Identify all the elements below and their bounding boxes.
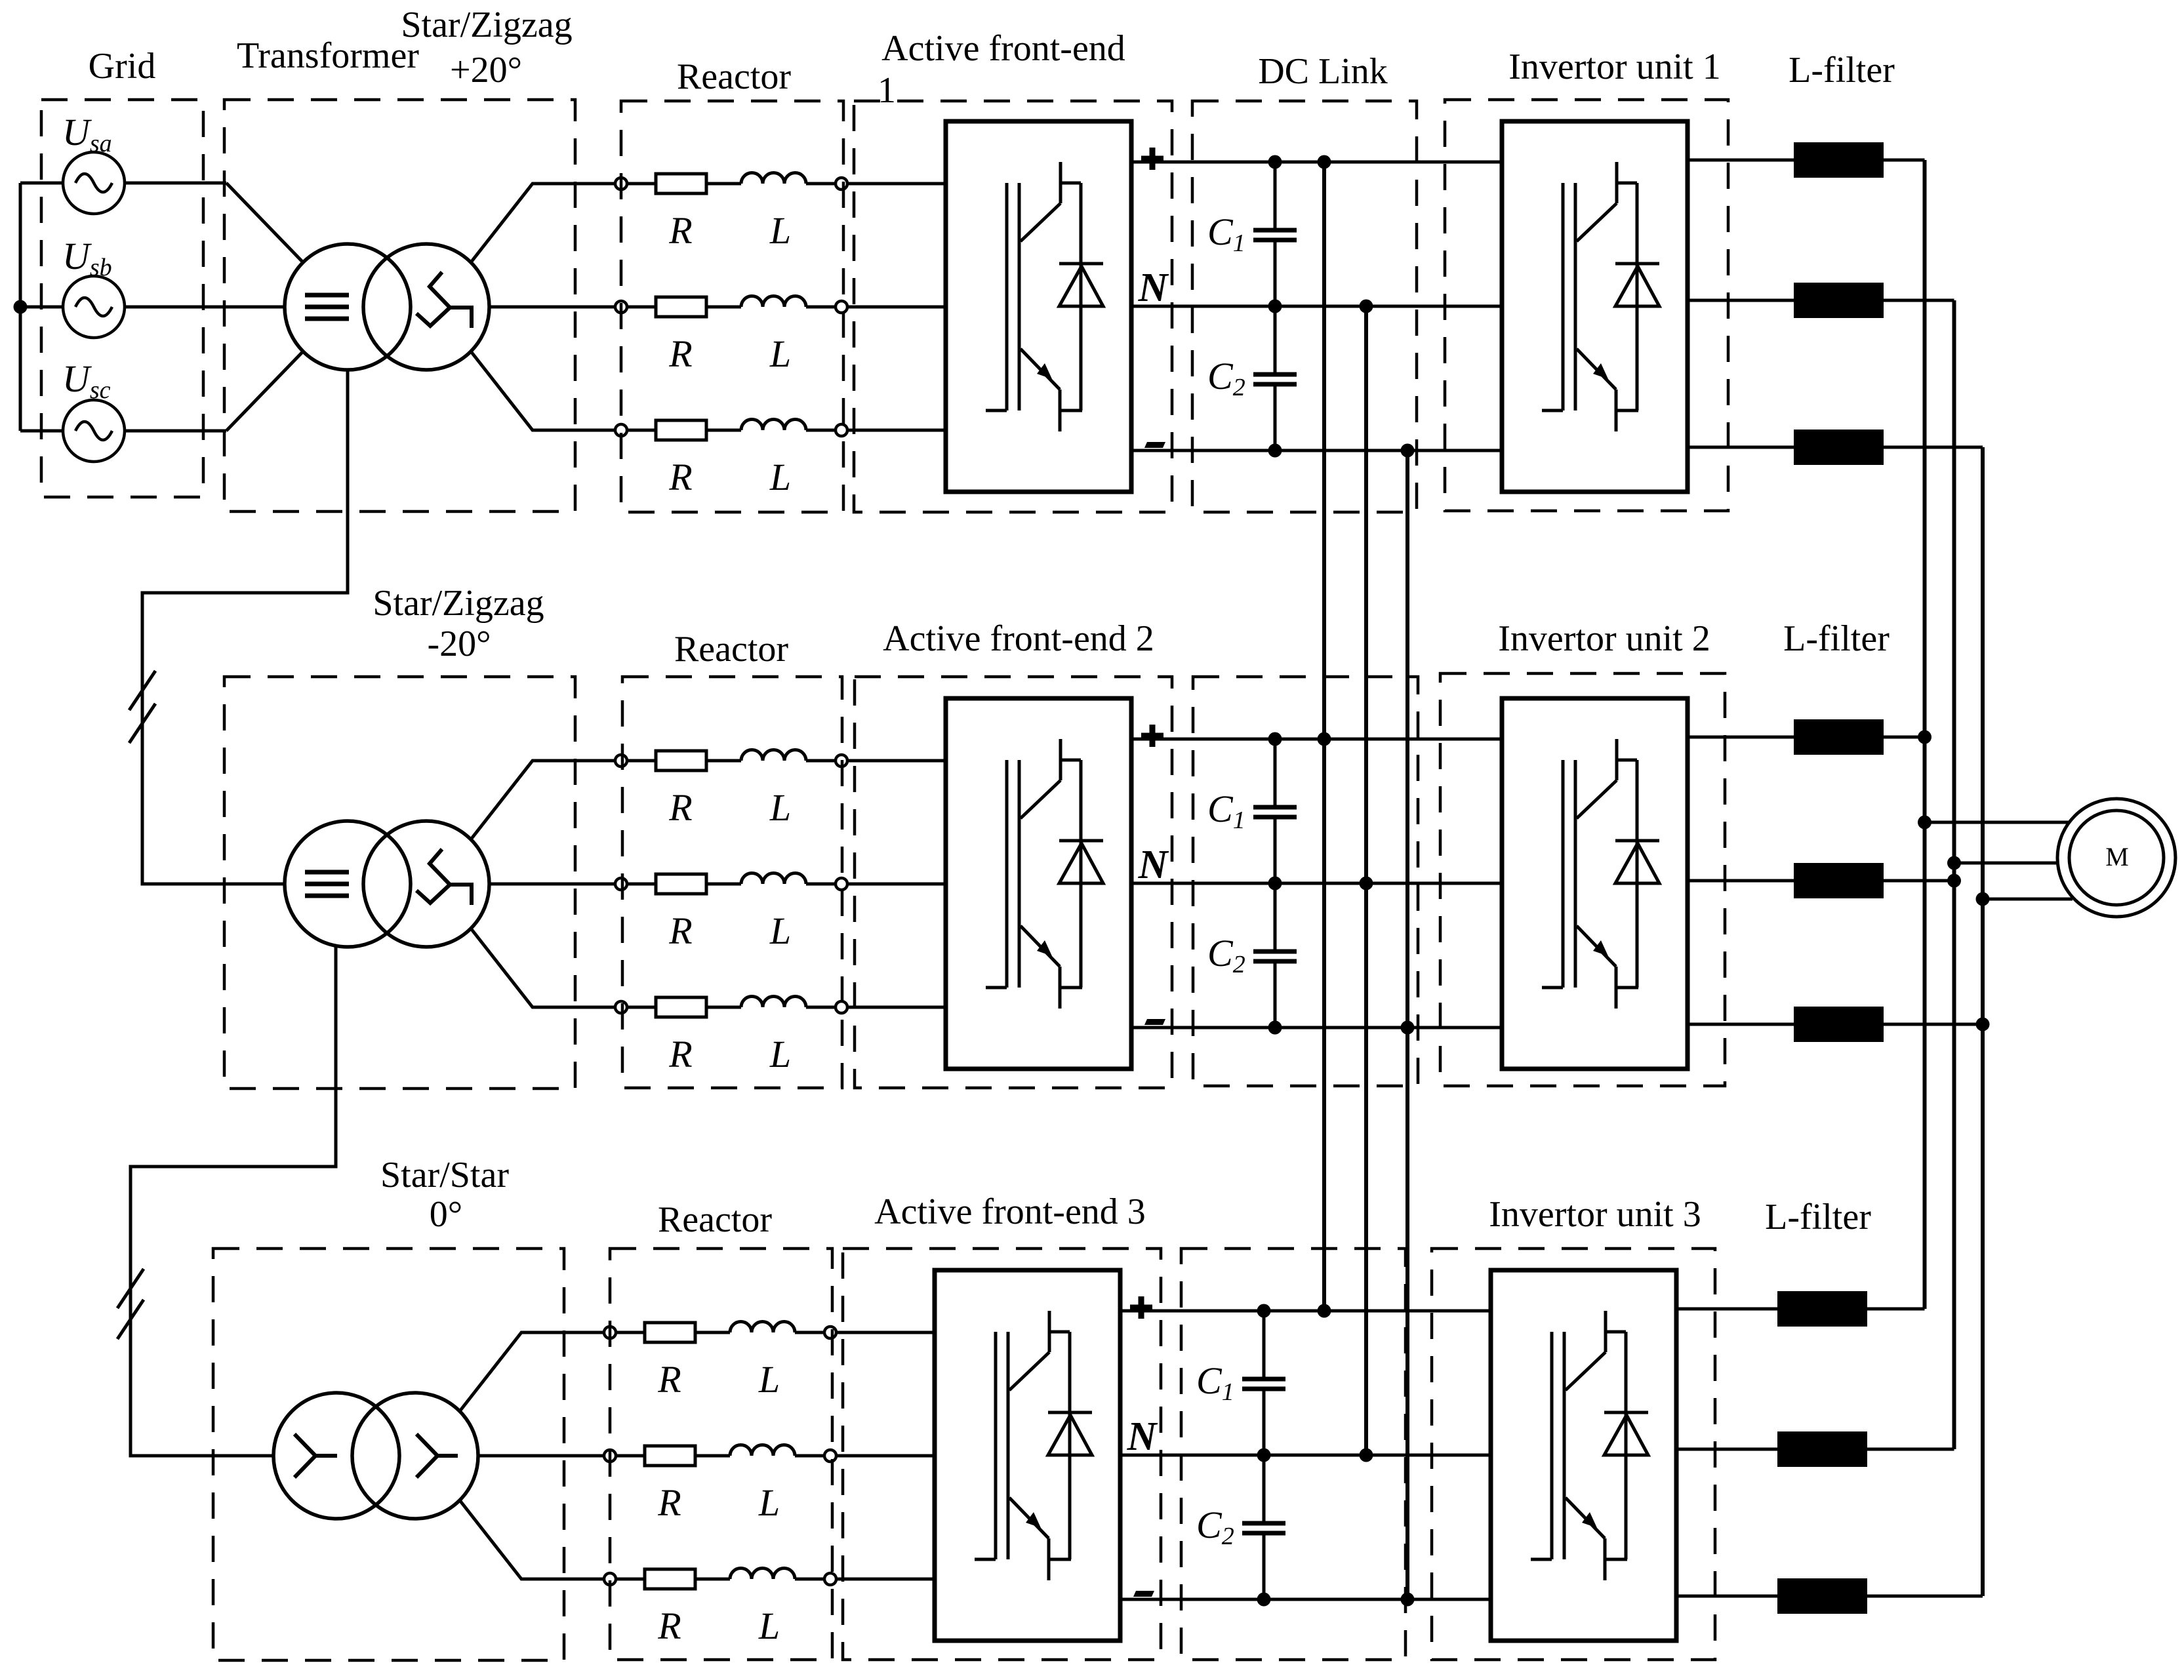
svg-text:R: R: [657, 1605, 681, 1647]
svg-text:Invertor unit 3: Invertor unit 3: [1489, 1194, 1701, 1235]
svg-text:Active front-end 2: Active front-end 2: [883, 618, 1154, 659]
svg-text:+20°: +20°: [450, 50, 522, 90]
svg-text:Active front-end 3: Active front-end 3: [874, 1191, 1146, 1232]
svg-text:L: L: [758, 1481, 780, 1524]
svg-text:Grid: Grid: [89, 46, 156, 87]
svg-text:Star/Star: Star/Star: [380, 1155, 509, 1195]
svg-text:Invertor unit 1: Invertor unit 1: [1508, 47, 1720, 87]
svg-text:M: M: [2105, 842, 2129, 871]
svg-text:L: L: [769, 1033, 791, 1075]
svg-text:R: R: [668, 209, 692, 252]
svg-text:L-filter: L-filter: [1789, 50, 1895, 90]
svg-text:N: N: [1138, 266, 1169, 310]
svg-text:L: L: [769, 332, 791, 375]
svg-text:Reactor: Reactor: [658, 1199, 772, 1240]
svg-text:1: 1: [878, 70, 896, 111]
svg-text:Invertor unit 2: Invertor unit 2: [1498, 618, 1710, 659]
svg-text:L: L: [769, 209, 791, 252]
svg-text:R: R: [668, 786, 692, 829]
svg-text:L-filter: L-filter: [1783, 618, 1890, 659]
svg-text:R: R: [657, 1358, 681, 1401]
svg-text:R: R: [668, 910, 692, 952]
svg-text:N: N: [1138, 843, 1169, 887]
svg-text:R: R: [668, 456, 692, 498]
svg-text:L: L: [769, 786, 791, 829]
svg-text:R: R: [668, 332, 692, 375]
svg-text:L: L: [769, 456, 791, 498]
svg-text:Star/Zigzag: Star/Zigzag: [373, 583, 544, 624]
svg-text:R: R: [657, 1481, 681, 1524]
svg-text:L: L: [758, 1358, 780, 1401]
svg-text:L-filter: L-filter: [1765, 1197, 1871, 1237]
svg-text:0°: 0°: [430, 1194, 462, 1235]
svg-text:R: R: [668, 1033, 692, 1075]
svg-text:N: N: [1127, 1414, 1158, 1459]
svg-text:L: L: [769, 910, 791, 952]
svg-text:Reactor: Reactor: [674, 629, 788, 670]
svg-text:Active front-end: Active front-end: [881, 28, 1125, 69]
svg-text:Transformer: Transformer: [237, 35, 419, 76]
svg-text:-20°: -20°: [427, 624, 491, 664]
svg-text:DC Link: DC Link: [1258, 51, 1388, 92]
svg-text:Reactor: Reactor: [677, 56, 791, 97]
svg-text:Star/Zigzag: Star/Zigzag: [401, 5, 572, 45]
svg-text:L: L: [758, 1605, 780, 1647]
